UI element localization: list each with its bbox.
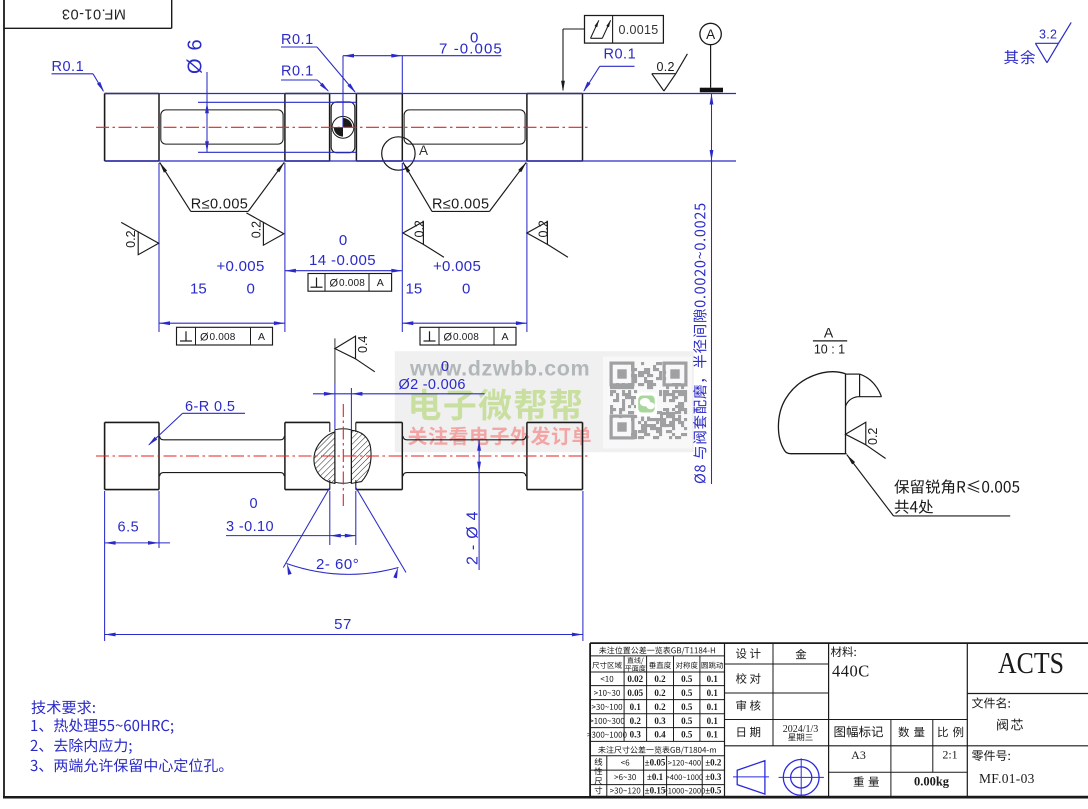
svg-text:ACTS: ACTS	[998, 645, 1064, 680]
svg-text:Ø: Ø	[330, 278, 339, 290]
svg-text:7 -0.005: 7 -0.005	[439, 41, 503, 58]
svg-text:0.1: 0.1	[707, 688, 719, 698]
svg-text:0.2: 0.2	[654, 702, 666, 712]
svg-text:±0.2: ±0.2	[705, 758, 722, 768]
svg-text:R≤0.005: R≤0.005	[191, 197, 249, 213]
svg-text:R0.1: R0.1	[281, 64, 314, 80]
svg-text:0: 0	[441, 359, 449, 375]
svg-text:R≤0.005: R≤0.005	[432, 197, 490, 213]
svg-text:0.05: 0.05	[627, 688, 643, 698]
svg-text:0.2: 0.2	[413, 220, 427, 237]
svg-text:0.2: 0.2	[124, 230, 138, 247]
svg-text:0.1: 0.1	[707, 702, 719, 712]
svg-text:±0.1: ±0.1	[647, 772, 664, 782]
svg-text:R0.1: R0.1	[281, 32, 314, 48]
svg-text:0.008: 0.008	[210, 332, 236, 343]
svg-text:15: 15	[406, 281, 423, 298]
svg-text:A: A	[706, 27, 715, 42]
svg-text:0: 0	[339, 232, 347, 249]
svg-text:A: A	[377, 277, 384, 289]
svg-text:MF.01-03: MF.01-03	[979, 771, 1035, 786]
svg-text:0: 0	[250, 496, 258, 512]
svg-text:±0.05: ±0.05	[645, 758, 666, 768]
svg-text:14 -0.005: 14 -0.005	[309, 252, 376, 269]
svg-text:±0.5: ±0.5	[705, 786, 722, 796]
svg-text:6.5: 6.5	[118, 520, 140, 536]
svg-text:0.1: 0.1	[707, 716, 719, 726]
svg-text:0.5: 0.5	[681, 688, 693, 698]
svg-text:+0.005: +0.005	[217, 258, 265, 275]
svg-text:0.2: 0.2	[657, 60, 675, 74]
svg-text:0.4: 0.4	[356, 336, 370, 353]
svg-text:2024/1/3: 2024/1/3	[783, 724, 819, 735]
svg-text:0.4: 0.4	[654, 730, 666, 740]
svg-text:A: A	[824, 325, 834, 341]
svg-text:15: 15	[190, 281, 207, 298]
svg-text:±0.3: ±0.3	[705, 772, 722, 782]
svg-text:2- 60°: 2- 60°	[316, 556, 359, 573]
svg-text:MF.01-03: MF.01-03	[61, 5, 125, 21]
svg-text:0.5: 0.5	[681, 702, 693, 712]
svg-text:±0.15: ±0.15	[645, 786, 666, 796]
svg-text:A: A	[501, 331, 508, 343]
svg-text:Ø: Ø	[200, 331, 209, 343]
svg-text:0.1: 0.1	[707, 674, 719, 684]
svg-text:0.02: 0.02	[627, 674, 643, 684]
svg-text:0.3: 0.3	[630, 730, 642, 740]
svg-text:6-R 0.5: 6-R 0.5	[185, 399, 235, 415]
svg-text:10 : 1: 10 : 1	[814, 343, 845, 357]
svg-text:0.0015: 0.0015	[619, 23, 659, 37]
svg-text:0.00kg: 0.00kg	[914, 775, 950, 789]
svg-text:+0.005: +0.005	[433, 258, 481, 275]
svg-text:Ø: Ø	[444, 331, 453, 343]
svg-text:0: 0	[247, 281, 255, 298]
svg-text:R0.1: R0.1	[52, 59, 85, 75]
svg-text:0.008: 0.008	[453, 332, 479, 343]
svg-text:0.2: 0.2	[630, 716, 642, 726]
svg-text:R0.1: R0.1	[604, 47, 637, 63]
svg-text:0.2: 0.2	[249, 221, 263, 238]
svg-text:0.2: 0.2	[654, 688, 666, 698]
svg-text:A: A	[419, 143, 428, 158]
svg-text:Ø2 -0.006: Ø2 -0.006	[399, 377, 466, 393]
svg-text:0.5: 0.5	[681, 674, 693, 684]
svg-text:2:1: 2:1	[942, 748, 957, 762]
svg-text:0.008: 0.008	[339, 278, 365, 289]
svg-text:57: 57	[334, 616, 352, 633]
svg-text:3.2: 3.2	[1039, 28, 1057, 42]
svg-text:Ø6: Ø6	[185, 31, 207, 74]
svg-text:0.2: 0.2	[654, 674, 666, 684]
svg-text:0.3: 0.3	[654, 716, 666, 726]
svg-text:3 -0.10: 3 -0.10	[226, 519, 274, 535]
svg-text:0.2: 0.2	[866, 428, 880, 445]
svg-text:0.2: 0.2	[537, 220, 551, 237]
svg-text:0.1: 0.1	[630, 702, 642, 712]
svg-text:0: 0	[462, 281, 470, 298]
svg-text:2-Ø4: 2-Ø4	[465, 505, 482, 565]
svg-text:0.5: 0.5	[681, 730, 693, 740]
svg-text:0.5: 0.5	[681, 716, 693, 726]
svg-text:A3: A3	[851, 748, 866, 762]
svg-text:A: A	[258, 331, 265, 343]
svg-text:0.1: 0.1	[707, 730, 719, 740]
svg-text:440C: 440C	[832, 662, 870, 681]
